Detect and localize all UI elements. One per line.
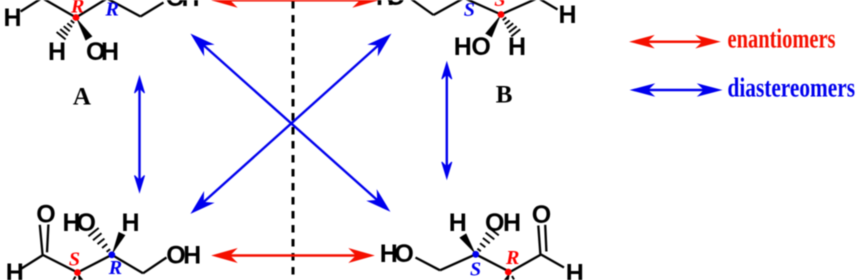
svg-text:S: S [69,249,80,271]
svg-text:H: H [4,4,22,32]
svg-text:OH: OH [485,209,521,237]
svg-text:A: A [73,84,91,111]
svg-text:R: R [505,247,519,269]
svg-text:OH: OH [166,0,200,12]
svg-text:H: H [6,259,24,280]
svg-text:diastereomers: diastereomers [728,72,856,102]
svg-text:HO: HO [454,33,491,61]
svg-text:enantiomers: enantiomers [728,24,836,54]
svg-text:O: O [532,201,551,229]
svg-text:R: R [70,0,84,17]
svg-text:HO: HO [376,0,406,11]
svg-text:H: H [122,209,140,237]
svg-text:OH: OH [86,38,119,66]
svg-text:H: H [449,209,467,237]
svg-text:HO: HO [380,240,414,268]
svg-text:R: R [108,257,122,279]
svg-text:H: H [48,38,66,66]
svg-text:S: S [470,259,481,280]
svg-text:HO: HO [63,209,97,237]
svg-text:H: H [508,33,526,61]
svg-text:O: O [36,201,55,229]
svg-text:S: S [464,0,475,21]
svg-text:OH: OH [166,241,201,269]
svg-text:B: B [496,82,513,109]
svg-text:H: H [566,260,584,280]
svg-text:H: H [559,1,577,29]
svg-text:S: S [494,0,505,11]
svg-text:R: R [105,0,119,20]
